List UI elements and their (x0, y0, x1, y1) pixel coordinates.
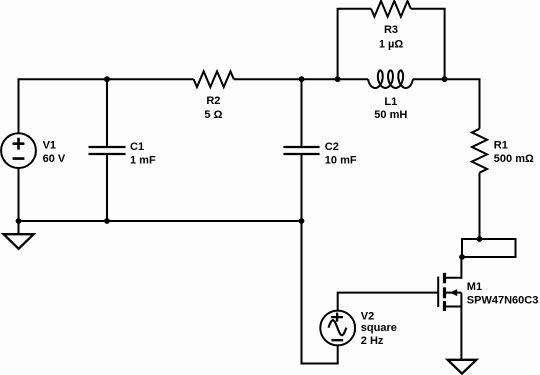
wire from L1 right to R1 top corner (413, 79, 480, 129)
svg-text:L1: L1 (384, 96, 397, 108)
resistor R3 (371, 1, 411, 51)
svg-text:square: square (361, 322, 397, 334)
wire V1 bottom to ground (18, 168, 20, 234)
wire V2 top to gate of M1 (338, 293, 438, 311)
svg-text:V1: V1 (43, 139, 56, 151)
svg-text:C2: C2 (325, 141, 339, 153)
ground (left) (4, 234, 34, 249)
svg-text:60 V: 60 V (43, 153, 66, 165)
node C1 bottom (104, 218, 110, 224)
node R3 right (442, 76, 448, 82)
node V1 ground (16, 218, 22, 224)
inductor L1 (368, 70, 413, 120)
wire from R2 right to L1 left (234, 78, 368, 80)
svg-text:1 µΩ: 1 µΩ (379, 38, 404, 50)
svg-text:R2: R2 (206, 95, 220, 107)
box (drain sense rectangle) (462, 239, 516, 257)
svg-text:V2: V2 (361, 311, 374, 323)
wire right branch of R3 loop (411, 9, 445, 79)
svg-text:SPW47N60C3: SPW47N60C3 (467, 294, 539, 306)
svg-text:500 mΩ: 500 mΩ (494, 153, 534, 165)
svg-text:50 mH: 50 mH (374, 109, 407, 121)
node R3 left (335, 76, 341, 82)
transistor M1 (NMOS) (438, 273, 538, 311)
svg-text:5 Ω: 5 Ω (204, 109, 222, 121)
capacitor C2 (283, 79, 356, 221)
node C1 top (104, 76, 110, 82)
svg-text:R3: R3 (384, 24, 398, 36)
svg-text:10 mF: 10 mF (325, 154, 357, 166)
ground (right, below M1) (448, 360, 477, 374)
ground bus wire (19, 220, 302, 222)
svg-text:C1: C1 (130, 141, 144, 153)
voltage source V1 (1, 133, 66, 168)
svg-text:2 Hz: 2 Hz (361, 335, 384, 347)
wire box corner to drain (446, 257, 461, 278)
svg-text:1 mF: 1 mF (130, 154, 156, 166)
wire source to ground (460, 293, 462, 360)
node box bottom-left (459, 254, 465, 260)
svg-text:R1: R1 (494, 140, 508, 152)
svg-text:M1: M1 (467, 281, 482, 293)
wire left branch of R3 loop (338, 9, 372, 79)
voltage source V2 (320, 311, 397, 347)
node C2 bottom (299, 218, 305, 224)
node box top / R1 (477, 236, 483, 242)
resistor R2 (194, 71, 234, 121)
resistor R1 (472, 129, 534, 173)
wire from V1 top to R2 left (19, 79, 194, 133)
capacitor C1 (89, 79, 156, 221)
node C2 top (299, 76, 305, 82)
wire C2 node down to V2 loop bottom (302, 221, 338, 364)
wire R1 bottom to box (479, 173, 481, 239)
